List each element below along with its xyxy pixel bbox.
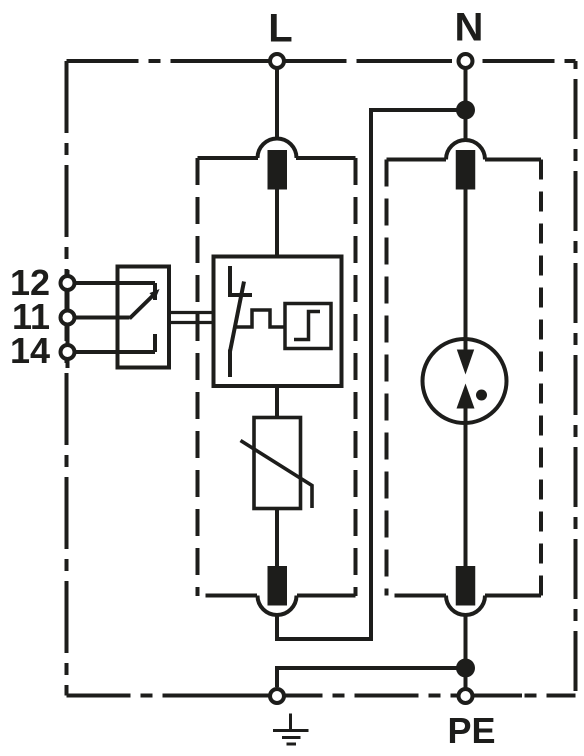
- ground terminal circle: [270, 689, 284, 703]
- spark gap upper electrode arrow: [457, 350, 474, 375]
- L terminal circle: [270, 54, 284, 68]
- remote signalling contact box K1: [118, 267, 170, 368]
- wire terminal 11 to contact pivot: [76, 316, 130, 320]
- spark gap lower electrode arrow: [457, 384, 475, 409]
- contact 12 fixed tick: [153, 283, 157, 300]
- wire terminal 12 to contact: [76, 281, 155, 285]
- step function glyph inside trigger box: [294, 312, 320, 340]
- terminal bushing dome bottom-left: [258, 596, 297, 616]
- N terminal circle: [459, 54, 473, 68]
- wire terminal 14 to contact: [76, 350, 155, 354]
- disconnector element F2 (black rect) top-right: [456, 150, 476, 190]
- spark gap F5 circle: [423, 339, 507, 423]
- earth ground symbol: [273, 714, 309, 745]
- disconnector element F4 (black rect) bottom-right: [456, 566, 476, 606]
- contact moving arm: [130, 295, 154, 319]
- trigger box inside U1: [285, 304, 331, 349]
- wire bottom-right bushing to PE junction: [464, 615, 468, 660]
- terminal circle 14: [61, 345, 75, 359]
- svg-text:PE: PE: [447, 710, 495, 751]
- switch blade (open) inside U1: [230, 282, 244, 352]
- enclosure border bottom (dash-dot): [67, 694, 576, 698]
- contact arm arrowhead: [149, 289, 159, 299]
- wire N terminal down to bushing: [464, 69, 468, 140]
- wire solid border segment at ground terminal: [186, 694, 268, 698]
- disconnector element F3 (black rect) bottom-left: [268, 566, 288, 606]
- mechanical linkage double line: [169, 313, 214, 323]
- junction node above PE: [456, 659, 475, 678]
- switch fixed lead inside U1: [228, 266, 232, 297]
- wire solid border segment at N: [366, 59, 452, 63]
- wire bottom-left bushing to N-bus riser: [277, 110, 463, 639]
- wire out of spark gap bottom: [464, 407, 468, 566]
- svg-text:L: L: [268, 7, 292, 51]
- wire U1 to varistor: [275, 386, 279, 418]
- wire solid border segment left terminals: [66, 270, 70, 368]
- SPD module 1 dashed box (varistor path): [198, 158, 356, 596]
- svg-text:14: 14: [10, 330, 50, 371]
- terminal circle 11: [61, 311, 75, 325]
- varistor RV1 body: [254, 418, 301, 509]
- svg-text:N: N: [455, 6, 484, 50]
- contact 14 fixed stub: [153, 334, 157, 352]
- thermal disconnector box U1: [214, 257, 342, 387]
- terminal bushing dome top-left: [258, 139, 297, 159]
- wire into spark gap from top: [464, 190, 468, 352]
- enclosure border right (dash-dot): [574, 61, 578, 696]
- wire solid border segment at PE: [475, 694, 523, 698]
- wire bushing to disconnector box: [275, 190, 279, 257]
- actuator step linkage inside U1: [235, 310, 285, 327]
- wire L terminal to bushing: [275, 69, 279, 139]
- wire solid border stub right of ground terminal: [287, 694, 298, 698]
- PE terminal circle: [459, 689, 473, 703]
- switch lower lead inside U1: [228, 350, 232, 378]
- terminal bushing dome bottom-right: [446, 596, 485, 616]
- terminal bushing dome top-right: [446, 140, 485, 160]
- SPD module 2 dashed box (spark gap path): [387, 160, 542, 596]
- PE bus horizontal wire: [277, 668, 466, 687]
- disconnector element F1 (black rect) top-left: [268, 150, 288, 190]
- wire junction to PE terminal: [464, 668, 468, 688]
- enclosure border left (dash-dot): [65, 61, 69, 696]
- terminal circle 12: [61, 276, 75, 290]
- spark gap trigger dot: [476, 390, 487, 401]
- varistor RV1 diagonal: [241, 441, 313, 509]
- wire varistor to bottom disconnector: [275, 509, 279, 567]
- enclosure border top (dash-dot): [67, 59, 576, 63]
- switch contact tick inside U1: [229, 293, 253, 297]
- wire solid border segment at L: [240, 59, 320, 63]
- junction node below N: [456, 101, 475, 120]
